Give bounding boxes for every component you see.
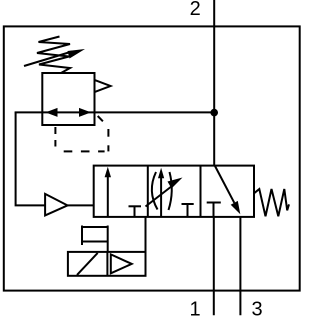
pilot connector to valve bbox=[145, 217, 147, 252]
regulator arrow right bbox=[79, 108, 91, 117]
svg-text:1: 1 bbox=[189, 299, 200, 321]
valve position divider 2 bbox=[200, 166, 202, 217]
pilot dashed line: right vertical run bbox=[107, 129, 109, 151]
throttle adjust arrow head bbox=[168, 178, 183, 189]
solenoid coil diagonal bbox=[77, 253, 98, 275]
adjustable spring zigzag bbox=[37, 37, 70, 74]
solenoid pilot box bbox=[68, 252, 146, 276]
valve body outline bbox=[94, 166, 254, 217]
left box blocked port T bbox=[129, 206, 142, 216]
manual override stem bbox=[107, 226, 109, 252]
right box flow path 2-3 bbox=[215, 166, 240, 214]
pilot supply line (horizontal) bbox=[15, 111, 215, 113]
check valve triangle (pilot feed) bbox=[45, 194, 67, 216]
solenoid box divider bbox=[106, 252, 108, 276]
svg-text:2: 2 bbox=[190, 0, 201, 20]
adjustment arrow shaft bbox=[24, 52, 72, 67]
regulator relief triangle bbox=[95, 80, 111, 92]
pilot dashed line: diagonal dash bbox=[98, 116, 103, 121]
port line 3 bbox=[239, 217, 241, 315]
junction dot bbox=[210, 109, 218, 117]
wire: triangle to valve port 12 bbox=[68, 204, 94, 206]
port line 1 bbox=[213, 217, 215, 315]
border frame bbox=[4, 26, 300, 290]
return spring bbox=[254, 189, 289, 216]
svg-text:3: 3 bbox=[251, 299, 262, 321]
left box flow arrow bbox=[105, 167, 111, 217]
middle box flow arrow bbox=[158, 168, 164, 217]
throttle left arc bbox=[152, 172, 158, 210]
throttle adjust arrow shaft bbox=[146, 186, 173, 207]
port line 2 bbox=[213, 0, 215, 166]
pilot dashed line: horizontal run bbox=[64, 150, 105, 152]
right box blocked port T bbox=[207, 203, 221, 217]
adjustment arrow head bbox=[68, 49, 86, 59]
manual override button bbox=[82, 226, 108, 246]
valve position divider 1 bbox=[147, 166, 149, 217]
wire: left vertical branch bbox=[16, 112, 45, 205]
pilot triangle bbox=[111, 254, 132, 273]
throttle right arc bbox=[169, 172, 172, 210]
pressure regulator body bbox=[42, 73, 94, 125]
pilot dashed line: box bottom down bbox=[54, 127, 56, 147]
middle box blocked port T bbox=[182, 204, 194, 217]
regulator arrow left bbox=[46, 108, 58, 117]
